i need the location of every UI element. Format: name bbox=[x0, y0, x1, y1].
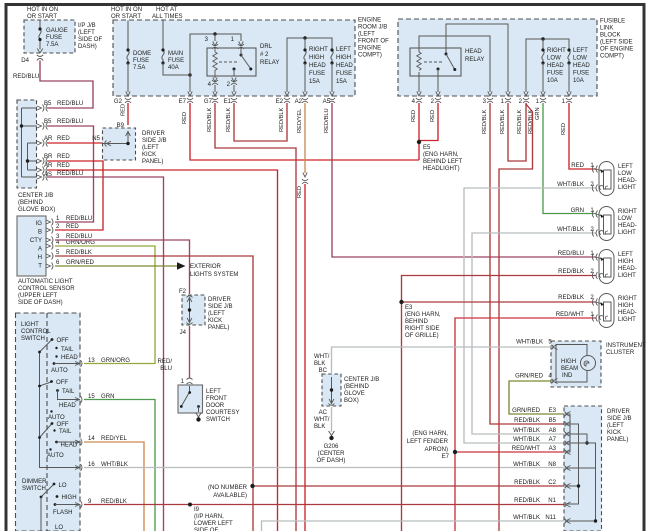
sensor pin 4 bbox=[46, 243, 53, 250]
wire GRN switch pin 15 down bbox=[84, 400, 155, 531]
svg-text:WHT/: WHT/ bbox=[314, 417, 330, 423]
svg-text:SIDE J/B: SIDE J/B bbox=[142, 138, 167, 144]
driver J/B pin N8 bbox=[565, 466, 571, 471]
svg-text:RELAY: RELAY bbox=[465, 57, 484, 63]
svg-text:RED/BLK: RED/BLK bbox=[66, 250, 92, 256]
svg-text:RIGHT SIDE: RIGHT SIDE bbox=[405, 326, 440, 332]
wire RED/BLU AS row177 long down bbox=[47, 177, 164, 531]
svg-text:GLOVE: GLOVE bbox=[344, 391, 365, 397]
svg-text:A3: A3 bbox=[549, 446, 557, 452]
svg-text:HOT AT: HOT AT bbox=[156, 7, 178, 13]
svg-text:RED/BLU: RED/BLU bbox=[66, 216, 92, 222]
connector J4 bbox=[187, 318, 193, 324]
svg-text:HOT IN ON: HOT IN ON bbox=[27, 7, 58, 13]
section 1 AUTO contact wire to pin 13 bbox=[54, 363, 79, 365]
svg-text:LEFT: LEFT bbox=[618, 164, 633, 170]
switch pin 13 bbox=[75, 360, 82, 367]
svg-text:RIGHT: RIGHT bbox=[309, 47, 328, 53]
svg-text:N1: N1 bbox=[548, 498, 556, 504]
driver J/B internal net A7-N8-N11 bbox=[567, 443, 596, 521]
driver J/B internal net A8-A7 bbox=[567, 434, 587, 443]
DRIVER SIDE J/B box (bottom right) bbox=[564, 406, 602, 531]
fuse RIGHT HIGH HEAD FUSE 15A bbox=[304, 51, 306, 64]
svg-text:HOT IN ON: HOT IN ON bbox=[111, 7, 142, 13]
DRL #2 relay box bbox=[207, 48, 256, 76]
svg-text:HEAD-: HEAD- bbox=[618, 178, 637, 184]
svg-text:SIDE J/B: SIDE J/B bbox=[607, 416, 632, 422]
svg-text:RED: RED bbox=[57, 136, 70, 142]
svg-text:(LEFT SIDE: (LEFT SIDE bbox=[600, 40, 632, 46]
svg-text:BOX): BOX) bbox=[344, 398, 359, 404]
svg-text:SWITCH: SWITCH bbox=[21, 336, 45, 342]
dimmer contacts LO HIGH FLASH bbox=[53, 483, 56, 486]
svg-text:RED/BLK: RED/BLK bbox=[558, 269, 584, 275]
pin B5 (row 126) bbox=[37, 123, 48, 130]
svg-text:BLK: BLK bbox=[314, 424, 325, 430]
wire RED/BLK right high headlight pin 2 to splice E3 and down bbox=[402, 302, 597, 531]
svg-text:AUTO: AUTO bbox=[51, 368, 68, 374]
svg-text:HIGH: HIGH bbox=[309, 55, 324, 61]
gauge fuse feed wire bbox=[39, 21, 41, 30]
dome fuse feed wire bbox=[127, 21, 129, 51]
wire GRN/RED sensor pin 6 to exterior lights arrow bbox=[55, 265, 177, 267]
svg-text:14: 14 bbox=[88, 436, 95, 442]
low head fuse feed bus bbox=[526, 39, 569, 92]
svg-text:KICK: KICK bbox=[142, 152, 156, 158]
inline connector on A2 wire bbox=[302, 173, 308, 184]
exit G7 bbox=[212, 92, 218, 103]
svg-text:LIGHT: LIGHT bbox=[618, 230, 636, 236]
svg-text:AUTO: AUTO bbox=[47, 453, 64, 459]
svg-text:RED/BLK: RED/BLK bbox=[514, 418, 540, 424]
RIGHT LOW HEADLIGHT bbox=[592, 207, 614, 241]
svg-text:FUSE: FUSE bbox=[133, 58, 149, 64]
svg-text:A7: A7 bbox=[549, 437, 557, 443]
DRIVER SIDE J/B mini box (F2/J4) bbox=[182, 295, 205, 325]
svg-text:DASH): DASH) bbox=[78, 44, 97, 50]
driver J/B pin A3 bbox=[565, 450, 571, 455]
svg-text:FUSE: FUSE bbox=[168, 58, 184, 64]
AUTOMATIC LIGHT CONTROL SENSOR box bbox=[17, 216, 46, 276]
wire RED exit 2 to splice E5 bbox=[419, 103, 438, 141]
svg-text:ENGINE: ENGINE bbox=[358, 46, 381, 52]
svg-text:TAIL: TAIL bbox=[59, 429, 72, 435]
splice E5 bbox=[417, 140, 421, 144]
svg-text:HEAD-: HEAD- bbox=[618, 310, 637, 316]
svg-text:(I/P HARN,: (I/P HARN, bbox=[194, 514, 224, 520]
relay pin 2 connector (bottom) bbox=[231, 78, 237, 85]
svg-text:7.5A: 7.5A bbox=[133, 65, 146, 71]
svg-text:COURTESY: COURTESY bbox=[206, 410, 240, 416]
exit 3 (head relay coil) bbox=[487, 92, 493, 103]
pin AR (row 170) bbox=[37, 167, 48, 174]
fuse MAIN FUSE 40A bbox=[162, 51, 164, 64]
mini J/B internal wire B9 to N5 bbox=[103, 131, 128, 144]
svg-text:FUSE: FUSE bbox=[547, 71, 563, 77]
svg-text:RIGHT: RIGHT bbox=[618, 296, 637, 302]
svg-text:E2: E2 bbox=[276, 99, 284, 105]
I/P J/B box (left side of dash) bbox=[24, 20, 75, 53]
exit 1 (right low fuse out) bbox=[540, 92, 546, 103]
svg-text:RED: RED bbox=[66, 224, 79, 230]
svg-text:(UPPER LEFT: (UPPER LEFT bbox=[18, 293, 58, 299]
svg-text:FRONT: FRONT bbox=[206, 396, 227, 402]
sensor pin 6 bbox=[46, 263, 53, 270]
ENGINE ROOM J/B box bbox=[113, 20, 355, 96]
svg-text:BLK: BLK bbox=[314, 361, 325, 367]
switch inner dashed divider bbox=[46, 313, 48, 531]
wire RED/BLK exit 2 branch down long bbox=[499, 104, 533, 531]
svg-text:HIGH: HIGH bbox=[62, 495, 77, 501]
exit 2 (low fuse feed) bbox=[523, 92, 529, 103]
wire RED BR row161 to sensor pin 2 bbox=[47, 161, 103, 230]
svg-text:WHT/BLK: WHT/BLK bbox=[513, 462, 540, 468]
svg-text:H: H bbox=[38, 255, 42, 261]
connector F2 bbox=[187, 296, 193, 302]
svg-text:RED/WHT: RED/WHT bbox=[556, 312, 585, 318]
wire RED AR row170 long down bbox=[47, 170, 278, 531]
exit 4 (head relay) bbox=[416, 92, 422, 103]
svg-text:WHT/BLK: WHT/BLK bbox=[513, 515, 540, 521]
svg-text:DRIVER: DRIVER bbox=[607, 409, 630, 415]
section 1 contacts OFF TAIL HEAD AUTO bbox=[51, 338, 54, 341]
section 2 TAIL contact wire to pin 15 bbox=[58, 391, 80, 400]
svg-text:AUTO: AUTO bbox=[48, 415, 65, 421]
head relay switch arm bbox=[445, 53, 448, 56]
wire E7 riser and DRL relay feed bbox=[190, 34, 241, 92]
wire RED/YEL A2 exit down bbox=[304, 103, 306, 173]
sensor pin 2 bbox=[46, 227, 53, 234]
wire RED/BLU D4 to CENTER J/B pin B5 (top) bbox=[40, 61, 93, 109]
svg-text:RED/BLK: RED/BLK bbox=[517, 109, 523, 134]
svg-text:RELAY: RELAY bbox=[260, 60, 279, 66]
wire GRN/ORG sensor pin 4 to switch pin 13 bbox=[55, 246, 155, 364]
switch section 3 arm (to OFF) bbox=[40, 424, 52, 438]
svg-text:LOW: LOW bbox=[573, 56, 587, 62]
svg-text:TAIL: TAIL bbox=[62, 389, 75, 395]
pin AR (row 143) bbox=[37, 140, 48, 147]
svg-text:IND: IND bbox=[562, 373, 573, 379]
wire WHT/BLK N11 row bbox=[262, 521, 565, 531]
wire RED/BLU sensor pin 3 to F2 bbox=[55, 240, 190, 294]
wire RED below inline connector down bbox=[304, 184, 306, 531]
exit 1 (left low fuse out) bbox=[566, 92, 572, 103]
svg-text:(CENTER: (CENTER bbox=[318, 451, 346, 457]
svg-text:RED: RED bbox=[182, 112, 188, 124]
head relay coil bottom wire to exit 4 bbox=[418, 72, 420, 92]
center J/B internal bus B5-B5-AS bbox=[22, 108, 38, 177]
svg-text:RED/BLU: RED/BLU bbox=[57, 119, 83, 125]
junction right high fuse tap bbox=[303, 36, 306, 39]
wire RED/BLK C2 row from splice bbox=[253, 485, 565, 487]
fuse GAUGE FUSE 7.5A bbox=[39, 30, 41, 50]
svg-text:PANEL): PANEL) bbox=[208, 325, 229, 331]
svg-text:DRIVER: DRIVER bbox=[142, 131, 165, 137]
svg-text:INSTRUMENT: INSTRUMENT bbox=[606, 343, 646, 349]
svg-text:DOOR: DOOR bbox=[206, 403, 225, 409]
svg-text:RED/YEL: RED/YEL bbox=[101, 436, 128, 442]
svg-text:GRN/RED: GRN/RED bbox=[512, 408, 541, 414]
wire RED E7 exit down and right to E5 bbox=[190, 103, 419, 160]
svg-text:F2: F2 bbox=[179, 289, 187, 295]
svg-text:RED/BLK: RED/BLK bbox=[482, 109, 488, 134]
svg-text:E7: E7 bbox=[179, 99, 187, 105]
svg-text:G7: G7 bbox=[204, 99, 213, 105]
wire RED/BLK E1 to E2 jumper bbox=[234, 103, 287, 141]
svg-text:I9: I9 bbox=[194, 507, 200, 513]
svg-text:BLOCK: BLOCK bbox=[600, 33, 621, 39]
DRL relay fixed contact bbox=[233, 68, 236, 71]
svg-text:IG: IG bbox=[36, 221, 43, 227]
wire RED/BLU J4 to courtesy switch pin 1 bbox=[189, 326, 191, 378]
svg-text:RED/BLU: RED/BLU bbox=[57, 171, 83, 177]
relay pin 3 connector (top) bbox=[212, 42, 218, 49]
section 3 HEAD contact wire to pin 14 bbox=[57, 441, 80, 443]
svg-text:(LEFT: (LEFT bbox=[78, 30, 95, 36]
svg-text:E1: E1 bbox=[224, 99, 232, 105]
relay pin 1 connector (top) bbox=[238, 42, 244, 49]
wire RED AR row143 to N5 bbox=[47, 142, 104, 144]
svg-text:T: T bbox=[38, 264, 42, 270]
svg-text:ALL TIMES: ALL TIMES bbox=[152, 14, 183, 20]
svg-text:RED/BLK: RED/BLK bbox=[500, 109, 506, 134]
svg-text:AVAILABLE): AVAILABLE) bbox=[213, 493, 247, 499]
svg-text:RED/BLU: RED/BLU bbox=[558, 251, 584, 257]
connector BC bbox=[329, 375, 335, 381]
svg-text:SIDE OF: SIDE OF bbox=[78, 37, 102, 43]
svg-text:E3: E3 bbox=[549, 408, 557, 414]
junction right low fuse tap bbox=[541, 37, 544, 40]
svg-text:E3: E3 bbox=[405, 305, 413, 311]
svg-text:RED/BLK: RED/BLK bbox=[558, 295, 584, 301]
svg-text:TAIL: TAIL bbox=[61, 347, 74, 353]
light control switch common bus bbox=[40, 352, 80, 468]
svg-text:DRL: DRL bbox=[260, 44, 273, 50]
wire RED/BLU A5 exit down to left high headlight bbox=[332, 103, 596, 257]
svg-text:RED: RED bbox=[561, 123, 567, 135]
pin BR (row 161) bbox=[37, 158, 48, 165]
svg-text:N8: N8 bbox=[548, 462, 556, 468]
svg-text:HIGH: HIGH bbox=[561, 359, 576, 365]
svg-text:FUSE: FUSE bbox=[336, 71, 352, 77]
svg-text:OF DASH): OF DASH) bbox=[317, 458, 346, 464]
svg-text:GRN/RED: GRN/RED bbox=[515, 374, 544, 380]
svg-text:LINK: LINK bbox=[600, 26, 613, 32]
LIGHT CONTROL / DIMMER SWITCH outer box bbox=[16, 313, 81, 531]
splice (NO NUMBER AVAILABLE) bbox=[250, 484, 254, 488]
wire RED/BLU B5 row126 to sensor pin 1 bbox=[47, 126, 94, 222]
svg-text:OF ENGINE: OF ENGINE bbox=[600, 47, 633, 53]
svg-text:BEHIND: BEHIND bbox=[405, 319, 428, 325]
svg-text:RED: RED bbox=[297, 186, 303, 198]
svg-text:RED: RED bbox=[121, 104, 127, 116]
courtesy switch pin 1 connector bbox=[187, 378, 193, 390]
wire RED/BLK sensor pin 5 down to splice bbox=[55, 256, 253, 531]
svg-text:OFF: OFF bbox=[56, 380, 68, 386]
svg-text:DOME: DOME bbox=[133, 51, 151, 57]
wire WHT/BLK switch pin 16 to driver J/B N8 bbox=[84, 467, 564, 469]
svg-text:N11: N11 bbox=[545, 515, 556, 521]
HIGH BEAM IND inner box bbox=[556, 345, 587, 383]
svg-text:LIGHTS SYSTEM: LIGHTS SYSTEM bbox=[190, 272, 238, 278]
switch section 2 arm (to OFF) bbox=[40, 382, 52, 386]
dimmer arm and bus bbox=[41, 485, 54, 498]
driver J/B pin N1 bbox=[565, 502, 571, 507]
svg-text:WHT/: WHT/ bbox=[314, 354, 330, 360]
svg-text:EXTERIOR: EXTERIOR bbox=[190, 264, 222, 270]
exit E1 bbox=[231, 92, 237, 103]
svg-text:RED/BLK: RED/BLK bbox=[207, 107, 213, 132]
svg-text:N5: N5 bbox=[92, 136, 100, 142]
arrow EXTERIOR LIGHTS SYSTEM bbox=[177, 262, 186, 270]
svg-text:C2: C2 bbox=[548, 480, 556, 486]
svg-text:HEAD: HEAD bbox=[59, 403, 76, 409]
svg-text:(NO NUMBER: (NO NUMBER bbox=[208, 485, 248, 491]
wire RED/BLK exit 3 down to driver J/B B5 bbox=[490, 103, 564, 424]
mini center J/B internal wire bbox=[331, 377, 333, 403]
driver J/B pin B5 bbox=[565, 422, 571, 427]
svg-text:(ENG HARN,: (ENG HARN, bbox=[405, 312, 441, 318]
wire RED/BLK G7 exit down to long riser bbox=[215, 103, 296, 531]
svg-text:RIGHT: RIGHT bbox=[618, 209, 637, 215]
driver J/B pin C2 bbox=[565, 484, 571, 489]
svg-text:A2: A2 bbox=[295, 99, 303, 105]
RIGHT HIGH HEADLIGHT bbox=[592, 294, 614, 328]
wire main fuse to E7 riser bbox=[163, 63, 190, 75]
fuse DOME FUSE 7.5A bbox=[127, 51, 129, 64]
wire WHT/BLK AC to ground G206 bbox=[331, 407, 333, 432]
svg-text:CENTER J/B: CENTER J/B bbox=[18, 193, 53, 199]
svg-text:LO: LO bbox=[55, 525, 63, 531]
wire RED left low fuse to left low headlight bbox=[569, 103, 596, 169]
svg-text:SIDE OF DASH): SIDE OF DASH) bbox=[18, 300, 63, 306]
svg-text:ROOM J/B: ROOM J/B bbox=[358, 25, 387, 31]
DRL relay switch arm bbox=[240, 54, 243, 57]
svg-text:A5: A5 bbox=[323, 99, 331, 105]
svg-text:HEAD-: HEAD- bbox=[618, 266, 637, 272]
svg-text:LEFT: LEFT bbox=[336, 47, 351, 53]
svg-text:(LEFT: (LEFT bbox=[208, 311, 225, 317]
svg-text:SIDE J/B: SIDE J/B bbox=[208, 304, 233, 310]
svg-text:HEAD: HEAD bbox=[336, 63, 353, 69]
head relay coil bbox=[417, 52, 421, 70]
svg-text:HIGH: HIGH bbox=[618, 303, 633, 309]
wire fuse to D4 connector bbox=[39, 53, 41, 64]
svg-text:COMPT): COMPT) bbox=[600, 54, 624, 60]
driver J/B internal net B5-C2-N1 bbox=[567, 424, 579, 504]
svg-text:B5: B5 bbox=[44, 101, 52, 107]
svg-text:GAUGE: GAUGE bbox=[46, 28, 68, 34]
relay pin 4 connector (bottom) bbox=[212, 78, 218, 85]
connector AC bbox=[329, 399, 335, 405]
svg-text:LEFT: LEFT bbox=[573, 48, 588, 54]
ground (courtesy switch) bbox=[196, 413, 202, 418]
pin B5 (row 108) bbox=[37, 105, 48, 112]
connector N5 bbox=[105, 141, 111, 147]
svg-text:FLASH: FLASH bbox=[53, 510, 73, 516]
svg-text:CTY: CTY bbox=[30, 238, 42, 244]
svg-text:PANEL): PANEL) bbox=[142, 159, 163, 165]
exit E2 bbox=[284, 92, 290, 103]
sensor pin 5 bbox=[46, 253, 53, 260]
svg-text:WHT/BLK: WHT/BLK bbox=[557, 227, 584, 233]
svg-text:FUSIBLE: FUSIBLE bbox=[600, 19, 625, 25]
switch pin 15 bbox=[75, 396, 82, 403]
head relay coil top wire to exit 3 bbox=[419, 36, 490, 92]
svg-text:COMPT): COMPT) bbox=[358, 53, 382, 59]
switch pin 14 bbox=[75, 439, 82, 446]
LEFT HIGH HEADLIGHT bbox=[592, 250, 614, 284]
svg-text:RED/BLU: RED/BLU bbox=[13, 74, 39, 80]
wire RED/BLK left high headlight pin 2 to splice E3 bbox=[402, 276, 597, 303]
CENTER J/B mini box (behind glove box) bbox=[322, 374, 341, 406]
svg-text:HEAD-: HEAD- bbox=[618, 223, 637, 229]
svg-text:AR: AR bbox=[44, 163, 53, 169]
wire RED/YEL switch pin 14 down bbox=[84, 442, 144, 531]
svg-text:LIGHT: LIGHT bbox=[618, 273, 636, 279]
svg-text:(ENG HARN,: (ENG HARN, bbox=[412, 431, 448, 437]
svg-text:13: 13 bbox=[88, 358, 95, 364]
svg-text:OR START: OR START bbox=[111, 14, 141, 20]
INSTRUMENT CLUSTER box bbox=[551, 341, 601, 387]
wire GRN right low fuse to right low headlight bbox=[543, 103, 596, 214]
wire RED/WHT right high headlight pin 1 to splice E7 and driver J/B A3 bbox=[455, 318, 596, 531]
svg-text:RED: RED bbox=[571, 163, 584, 169]
svg-text:I/P J/B: I/P J/B bbox=[78, 23, 96, 29]
FUSIBLE LINK BLOCK box bbox=[398, 19, 597, 96]
connector B9 into driver side J/B bbox=[125, 129, 131, 135]
driver J/B pin A8 bbox=[565, 432, 571, 437]
CENTER J/B box (upper left) bbox=[17, 100, 37, 188]
svg-text:RED/BLU: RED/BLU bbox=[57, 101, 83, 107]
dimmer pin 9 bbox=[75, 501, 82, 508]
svg-text:GRN/ORG: GRN/ORG bbox=[66, 240, 95, 246]
DRL relay coil bbox=[213, 48, 217, 76]
exit A5 bbox=[329, 92, 335, 103]
svg-text:OF GRILLE): OF GRILLE) bbox=[405, 333, 439, 339]
svg-text:CONTROL SENSOR: CONTROL SENSOR bbox=[18, 286, 75, 292]
svg-text:RED/YEL: RED/YEL bbox=[297, 109, 303, 133]
svg-text:OFF: OFF bbox=[57, 338, 69, 344]
splice I9 bbox=[188, 503, 192, 507]
exit 2 (head relay) bbox=[435, 92, 441, 103]
fuse LEFT HIGH HEAD FUSE 15A bbox=[331, 51, 333, 64]
svg-text:HIGH: HIGH bbox=[336, 55, 351, 61]
LEFT LOW HEADLIGHT bbox=[592, 162, 614, 196]
fuse RIGHT LOW HEAD FUSE 10A bbox=[542, 51, 544, 64]
svg-text:BEHIND LEFT: BEHIND LEFT bbox=[423, 159, 463, 165]
svg-text:FUSE: FUSE bbox=[573, 71, 589, 77]
dimmer FLASH contact wire to pin 9 bbox=[55, 504, 79, 506]
svg-text:GRN: GRN bbox=[535, 107, 541, 120]
wire dome fuse to G2 exit bbox=[127, 63, 129, 92]
svg-text:HEADLIGHT): HEADLIGHT) bbox=[423, 166, 460, 172]
junction main fuse / E7 riser bbox=[188, 73, 191, 76]
center J/B internal bus AR-BR-AR bbox=[28, 143, 38, 170]
svg-text:B5: B5 bbox=[44, 119, 52, 125]
svg-text:BEAM: BEAM bbox=[561, 366, 578, 372]
HEAD RELAY box bbox=[410, 48, 461, 76]
svg-text:LO: LO bbox=[59, 483, 67, 489]
main fuse feed wire bbox=[162, 21, 164, 51]
head relay dashed link bbox=[424, 61, 442, 63]
sensor pin 1 bbox=[46, 219, 53, 226]
svg-text:HEAD: HEAD bbox=[309, 63, 326, 69]
svg-text:(ENG HARN,: (ENG HARN, bbox=[423, 152, 459, 158]
wire GRN/RED cluster pin 4 to driver J/B E3 bbox=[509, 381, 564, 414]
driver J/B pin A7 bbox=[565, 441, 571, 446]
svg-text:E5: E5 bbox=[423, 145, 431, 151]
